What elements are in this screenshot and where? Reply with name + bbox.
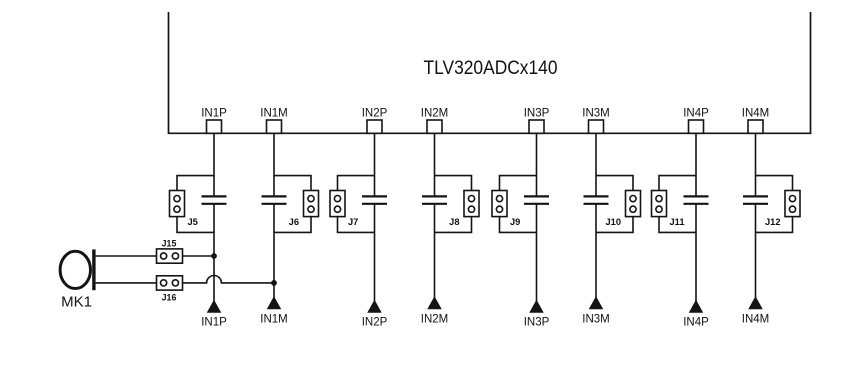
- wire IN2P pin to capacitor: [374, 133, 376, 196]
- wire IN4M capacitor to port: [755, 204, 757, 298]
- svg-text:IN4P: IN4P: [683, 316, 709, 328]
- pin IN4M (square): [748, 120, 763, 133]
- capacitor on IN2P line: [362, 196, 387, 203]
- pin IN2M (square): [427, 120, 442, 133]
- wire branch to jumper J7: [338, 176, 375, 233]
- pin IN3P (square): [529, 120, 544, 133]
- port arrow IN1M: [268, 297, 281, 309]
- jumper J10 (2-pin header): [626, 191, 641, 217]
- pin IN1P (square): [207, 120, 222, 133]
- junction dot on IN1M net: [271, 280, 277, 286]
- svg-text:IN2P: IN2P: [362, 316, 388, 328]
- port arrow IN4M: [749, 297, 762, 309]
- capacitor on IN3P line: [524, 196, 549, 203]
- junction dot on IN1P net: [211, 253, 217, 259]
- wire IN1P capacitor to port: [213, 204, 215, 302]
- wire MK1 bottom terminal to J16: [96, 282, 157, 284]
- jumper J7 (2-pin header): [330, 191, 345, 217]
- svg-text:J15: J15: [162, 238, 177, 248]
- svg-text:J11: J11: [670, 217, 685, 227]
- wire IN1M capacitor to port: [273, 204, 275, 298]
- wire branch to jumper J10: [596, 176, 633, 233]
- svg-text:IN3P: IN3P: [524, 107, 550, 119]
- wire IN2M pin to capacitor: [434, 133, 436, 196]
- svg-text:IN2P: IN2P: [362, 107, 388, 119]
- wire IN3P pin to capacitor: [536, 133, 538, 196]
- microphone MK1 (electret mic symbol): [60, 249, 95, 290]
- wire IN2M capacitor to port: [434, 204, 436, 298]
- svg-text:MK1: MK1: [61, 294, 92, 311]
- capacitor on IN3M line: [584, 196, 609, 203]
- svg-text:IN1M: IN1M: [260, 313, 287, 325]
- pin IN4P (square): [689, 120, 704, 133]
- wire branch to jumper J6: [274, 176, 311, 233]
- svg-text:J6: J6: [289, 217, 299, 227]
- wire J15 to IN1P net: [183, 255, 215, 257]
- svg-text:IN4P: IN4P: [683, 107, 709, 119]
- wire IN3M capacitor to port: [595, 204, 597, 298]
- svg-text:IN4M: IN4M: [742, 313, 769, 325]
- jumper J12 (2-pin header): [785, 191, 800, 217]
- svg-text:IN2M: IN2M: [421, 313, 448, 325]
- wire IN4P pin to capacitor: [695, 133, 697, 196]
- wire IN3P capacitor to port: [536, 204, 538, 302]
- port arrow IN1P: [208, 301, 221, 313]
- port arrow IN4P: [690, 301, 703, 313]
- svg-text:IN4M: IN4M: [742, 107, 769, 119]
- jumper J15 (2-pin header, horizontal): [157, 249, 183, 263]
- svg-text:J8: J8: [449, 217, 459, 227]
- wire IN1M pin to capacitor: [273, 133, 275, 196]
- svg-text:TLV320ADCx140: TLV320ADCx140: [424, 58, 558, 79]
- capacitor on IN4M line: [743, 196, 768, 203]
- wire MK1 top terminal to J15: [96, 255, 157, 257]
- wire IN4M pin to capacitor: [755, 133, 757, 196]
- svg-text:J7: J7: [348, 217, 358, 227]
- svg-text:J9: J9: [510, 217, 520, 227]
- port arrow IN3M: [590, 297, 603, 309]
- jumper J8 (2-pin header): [464, 191, 479, 217]
- capacitor on IN2M line: [422, 196, 447, 203]
- capacitor on IN1M line: [262, 196, 287, 203]
- svg-text:J16: J16: [162, 292, 177, 302]
- svg-text:IN1M: IN1M: [260, 107, 287, 119]
- svg-text:IN2M: IN2M: [421, 107, 448, 119]
- svg-text:J10: J10: [605, 217, 621, 227]
- port arrow IN2M: [428, 297, 441, 309]
- wire IN2P capacitor to port: [374, 204, 376, 302]
- op IC U1 outline (TLV320ADCx140, open-top box): [169, 12, 811, 133]
- svg-text:IN3M: IN3M: [582, 107, 609, 119]
- wire IN3M pin to capacitor: [595, 133, 597, 196]
- jumper J16 (2-pin header, horizontal): [157, 276, 183, 290]
- wire branch to jumper J8: [435, 176, 472, 233]
- capacitor on IN1P line: [202, 196, 227, 203]
- wire IN4P capacitor to port: [695, 204, 697, 302]
- wire branch to jumper J5: [177, 176, 214, 233]
- svg-text:J5: J5: [188, 217, 198, 227]
- port arrow IN2P: [368, 301, 381, 313]
- svg-text:IN1P: IN1P: [201, 316, 227, 328]
- pin IN1M (square): [267, 120, 282, 133]
- jumper J6 (2-pin header): [304, 191, 319, 217]
- jumper J5 (2-pin header): [170, 191, 185, 217]
- wire branch to jumper J12: [756, 176, 793, 233]
- jumper J11 (2-pin header): [652, 191, 667, 217]
- capacitor on IN4P line: [684, 196, 709, 203]
- svg-text:IN3P: IN3P: [524, 316, 550, 328]
- wire IN1P pin to capacitor: [213, 133, 215, 196]
- svg-text:IN1P: IN1P: [201, 107, 227, 119]
- wire branch to jumper J9: [500, 176, 537, 233]
- svg-text:J12: J12: [765, 217, 781, 227]
- pin IN2P (square): [367, 120, 382, 133]
- pin IN3M (square): [589, 120, 604, 133]
- port arrow IN3P: [530, 301, 543, 313]
- wire J16 to IN1M net with hop over IN1P wire: [183, 276, 275, 283]
- jumper J9 (2-pin header): [492, 191, 507, 217]
- wire branch to jumper J11: [659, 176, 696, 233]
- svg-text:IN3M: IN3M: [582, 313, 609, 325]
